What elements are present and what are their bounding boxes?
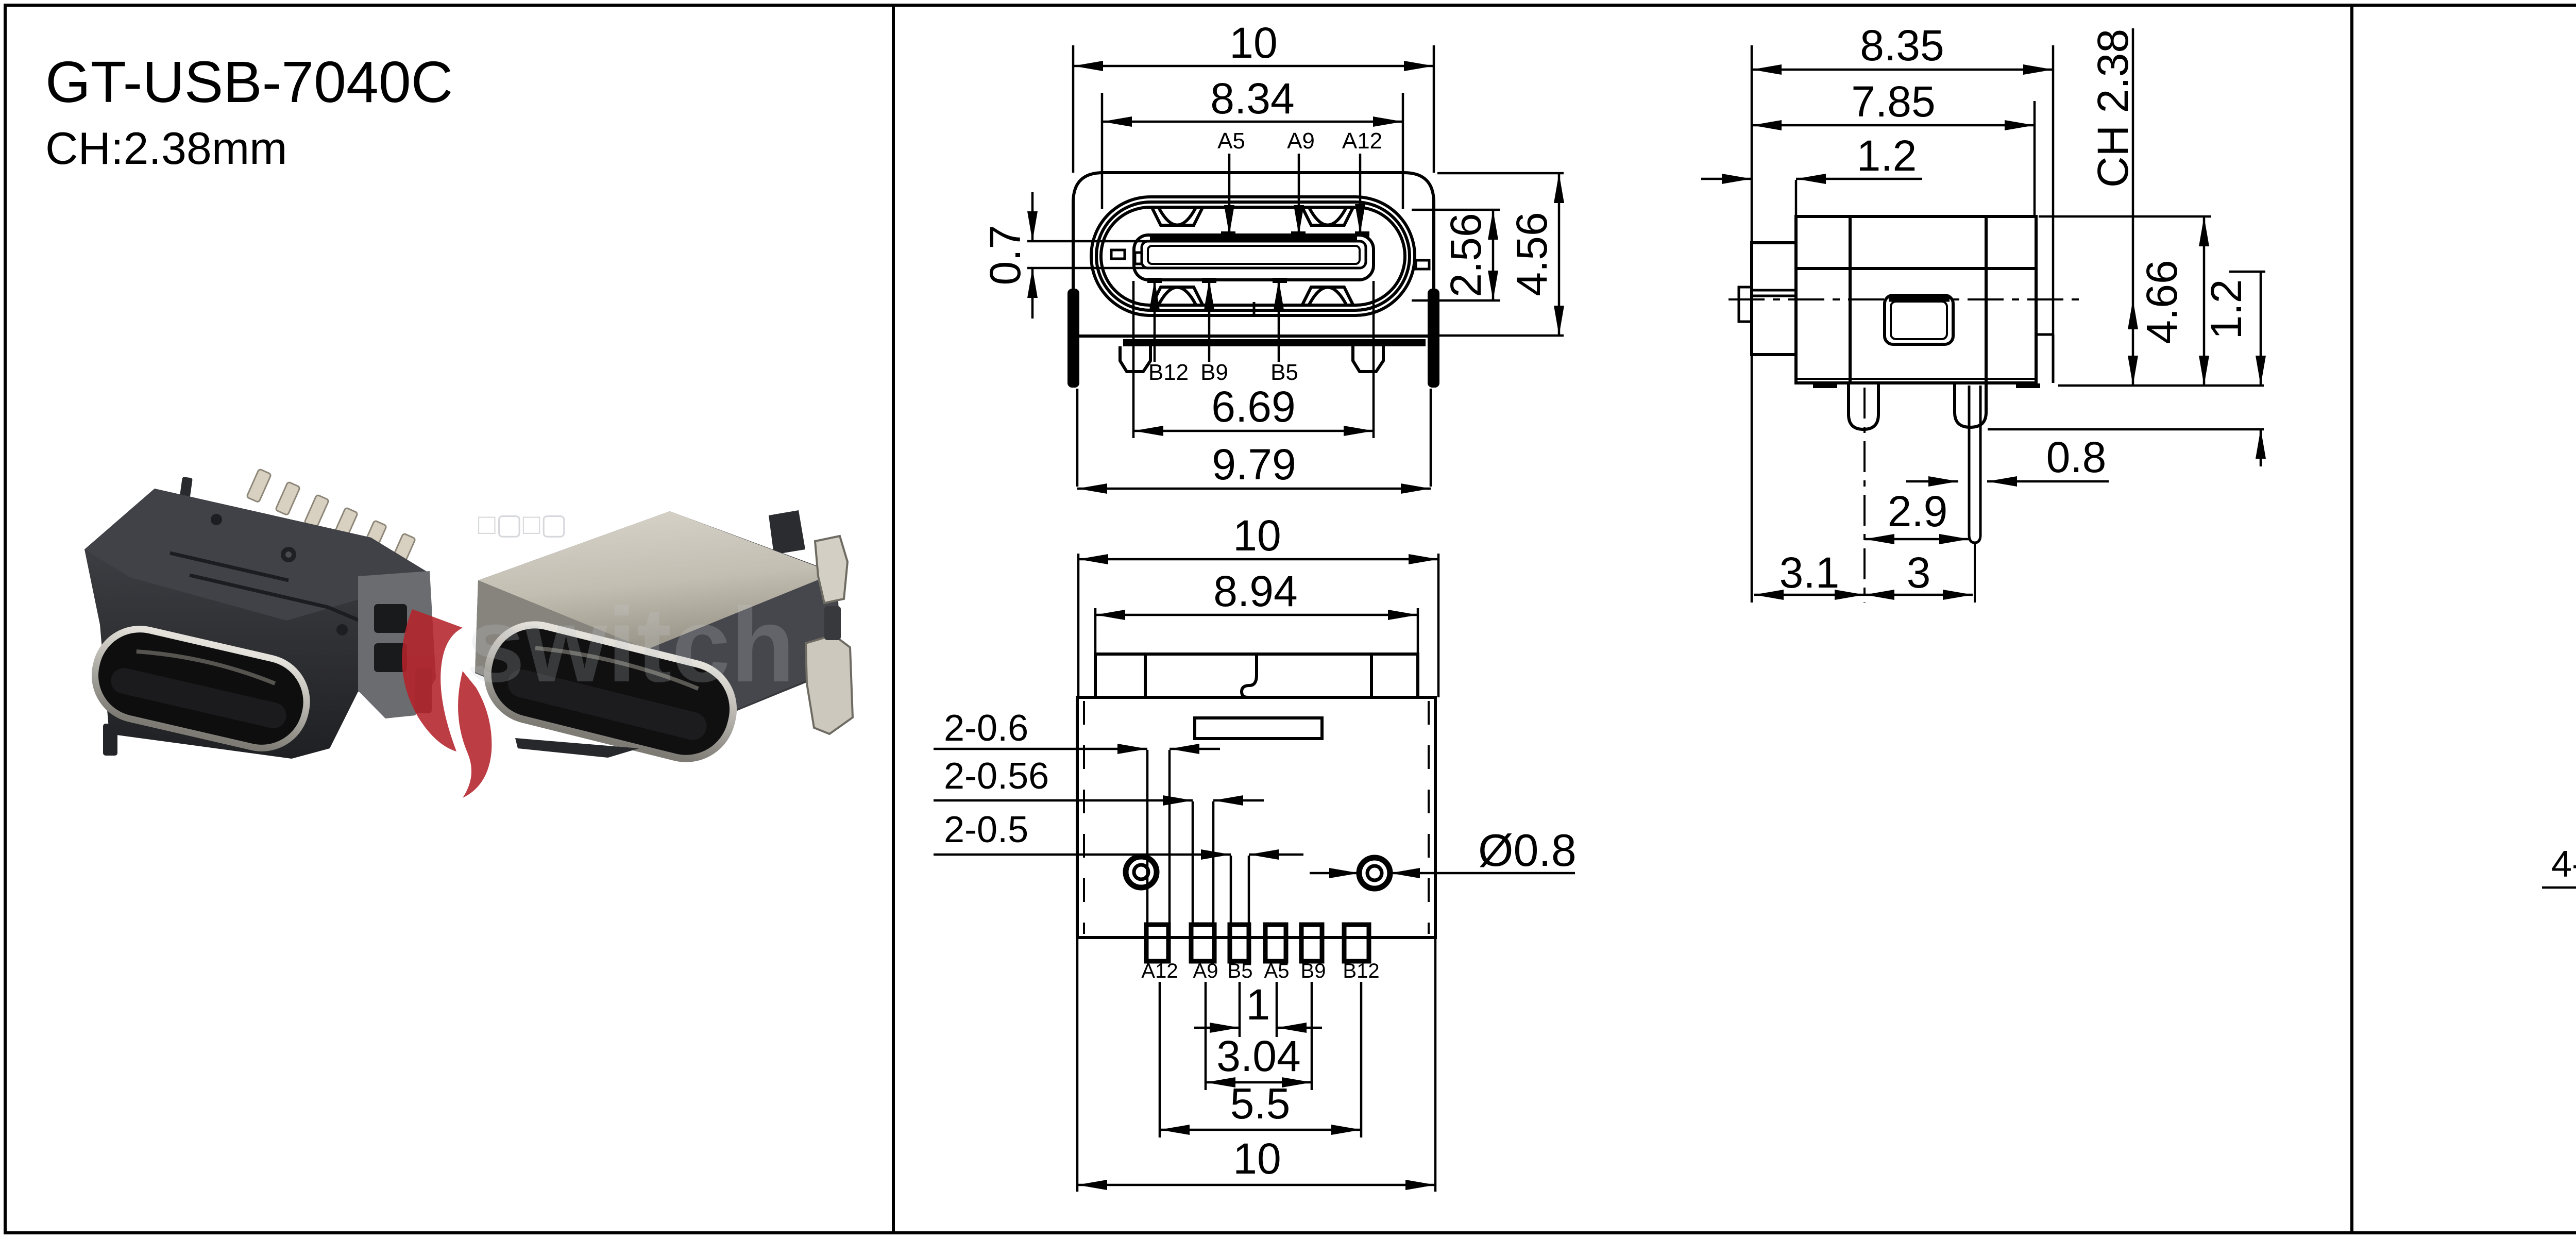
svg-text:3: 3 [1907, 548, 1931, 597]
front view: dim 10 [1073, 65, 1434, 68]
side view: centreline [1728, 298, 2080, 300]
photo: right connector [475, 510, 853, 768]
front view: pin nub A9 [1291, 231, 1306, 237]
side view: dim 7.85 [1752, 124, 2035, 127]
side view: retention clip window [1885, 295, 1953, 344]
front view: tongue [1142, 241, 1366, 268]
svg-text:B5: B5 [1228, 960, 1253, 982]
front view: connector body outline [1073, 173, 1434, 336]
svg-text:2-0.56: 2-0.56 [944, 756, 1049, 797]
svg-text:4.66: 4.66 [2138, 260, 2186, 344]
svg-text:A9: A9 [1287, 128, 1315, 154]
front view: dim 6.69 extension lines [1132, 281, 1135, 438]
bottom view: flange break squiggle [1242, 654, 1257, 697]
panel divider 2 [2350, 5, 2353, 1233]
svg-text:6.69: 6.69 [1211, 382, 1296, 431]
side view: internal vertical front [1849, 216, 1852, 383]
bottom view: pin B5 [1230, 925, 1249, 961]
side view: dim 2.9 [1865, 538, 1969, 541]
photo: watermark red logo [402, 609, 492, 798]
svg-text:B5: B5 [1270, 360, 1298, 385]
bottom view: inner side line right [1428, 701, 1430, 934]
svg-text:B12: B12 [1343, 960, 1379, 982]
svg-text:4-0.5: 4-0.5 [2551, 844, 2576, 885]
side view: dim 8.35 extension lines [1751, 45, 1753, 603]
bottom view: dim 10 bottom [1077, 1184, 1435, 1186]
bottom view: flange divider right [1370, 654, 1373, 697]
side view: dim 4.66 [2203, 216, 2206, 386]
side view: top step line [1796, 267, 2036, 270]
side view: dim CH 2.38 [2132, 28, 2134, 386]
front view: latch bottom-left [1152, 287, 1202, 305]
side view: bottom inner line [1796, 378, 2036, 380]
side view: dim 3.1 [1754, 594, 1865, 596]
svg-text:GT-USB-7040C: GT-USB-7040C [45, 49, 453, 114]
side view: seating plane line [2058, 384, 2264, 387]
svg-text:2.56: 2.56 [1442, 213, 1490, 297]
svg-text:10: 10 [1233, 511, 1281, 560]
front view: shell ring middle [1096, 202, 1410, 310]
side view: dim 4.66 extension line [2039, 215, 2211, 218]
svg-text:8.35: 8.35 [1860, 21, 1944, 70]
side view: dim 8.35 [1752, 69, 2053, 71]
svg-text:0.8: 0.8 [2046, 433, 2107, 481]
bottom view: dim 10 top extension lines [1077, 554, 1080, 697]
front view: latch top-right [1302, 208, 1353, 225]
side view: smt pad rear [2016, 383, 2040, 388]
svg-text:A12: A12 [1342, 128, 1382, 154]
side view: rear tab [2036, 333, 2053, 336]
svg-text:0.7: 0.7 [981, 225, 1029, 286]
side view: smt pad front [1813, 383, 1837, 388]
front view: side through-pin left [1067, 289, 1079, 388]
panel divider 1 [892, 5, 895, 1233]
front view: pin nub B12 [1147, 278, 1162, 283]
front view: tongue housing [1134, 235, 1374, 280]
front view: side spring right [1416, 260, 1429, 269]
svg-text:1.2: 1.2 [1857, 131, 1917, 180]
side view: internal vertical rear [1985, 216, 1988, 383]
bottom view: dim 8.94 extension lines [1094, 608, 1097, 655]
bottom view: hole right [1359, 858, 1390, 889]
photo: left connector [84, 469, 436, 759]
front view: tongue housing top thick edge [1150, 236, 1357, 241]
side view: lip front step [1739, 287, 1752, 322]
svg-text:CH:2.38mm: CH:2.38mm [45, 123, 287, 174]
svg-text:1.2: 1.2 [2202, 279, 2250, 340]
bottom view: slot window [1195, 718, 1322, 739]
front view: mounting leg left [1120, 346, 1150, 372]
side view: lip inner lines [1752, 289, 1796, 292]
svg-text:3.1: 3.1 [1780, 548, 1840, 597]
front view: shell ring inner [1101, 207, 1405, 305]
front view: pin nub B5 [1273, 278, 1287, 283]
svg-text:CH 2.38: CH 2.38 [2089, 29, 2137, 188]
svg-text:1: 1 [1246, 980, 1270, 1029]
bottom view: hole left [1126, 857, 1157, 888]
svg-text:A9: A9 [1193, 960, 1218, 982]
front view: dim 8.34 [1102, 121, 1403, 123]
front view: dim 9.79 extension lines [1076, 389, 1079, 487]
front view: side through-pin right [1428, 289, 1439, 388]
side view: front leg [1849, 383, 1878, 429]
bottom view: dim 5.5 extension lines [1159, 982, 1161, 1137]
side view: mating lip [1752, 243, 1796, 355]
svg-text:10: 10 [1229, 19, 1277, 67]
bottom view: flange divider left [1144, 654, 1147, 697]
bottom view: dim 3.04 [1206, 1081, 1312, 1084]
svg-text:A12: A12 [1141, 960, 1178, 982]
svg-text:switch: switch [466, 586, 795, 704]
svg-text:7.85: 7.85 [1851, 77, 1936, 126]
svg-text:9.79: 9.79 [1212, 440, 1296, 489]
svg-text:2-0.6: 2-0.6 [944, 708, 1028, 749]
svg-text:4.56: 4.56 [1507, 212, 1556, 296]
bottom view: pin A5 [1265, 925, 1286, 961]
svg-text:□▢□▢: □▢□▢ [478, 508, 567, 540]
side view: dim 7.85 extension line [2033, 101, 2036, 216]
svg-text:5.5: 5.5 [1230, 1079, 1291, 1128]
bottom view: pin A12 [1146, 925, 1168, 961]
svg-text:3.04: 3.04 [1216, 1032, 1301, 1080]
front view: latch top-left [1152, 208, 1202, 225]
front view: dim 8.34 extension lines [1101, 93, 1104, 209]
bottom view: rear flange outline [1095, 654, 1418, 697]
bottom view: pin B9 [1301, 925, 1322, 961]
front view: tab at tongue left end [1135, 253, 1142, 264]
svg-text:2.9: 2.9 [1888, 487, 1948, 536]
front view: dim 2.56 [1412, 209, 1500, 211]
front view: dim 10 extension lines [1072, 45, 1075, 173]
svg-text:Ø0.8: Ø0.8 [1478, 825, 1577, 876]
side view: through pin [1969, 386, 1980, 543]
front view: latch bottom-right [1302, 287, 1353, 305]
front view: bottom smt foot bar [1123, 339, 1426, 346]
svg-text:B12: B12 [1148, 360, 1189, 385]
svg-text:A5: A5 [1264, 960, 1290, 982]
svg-text:A5: A5 [1217, 128, 1245, 154]
front view: pin nub A5 [1221, 231, 1235, 237]
front view: pin nub B9 [1202, 278, 1216, 283]
front view: shell ring outer [1091, 197, 1415, 315]
bottom view: dim 10 top [1078, 558, 1438, 561]
svg-text:8.94: 8.94 [1213, 567, 1298, 615]
front view: dim 4.56 [1437, 172, 1564, 175]
bottom view: body outline [1077, 697, 1435, 938]
svg-text:2-0.5: 2-0.5 [944, 809, 1028, 850]
side view: standoff line [1988, 428, 2264, 431]
bottom view: inner side line left [1083, 701, 1085, 934]
front view: dim 9.79 [1077, 488, 1431, 490]
side view: dim 3 [1865, 594, 1973, 596]
svg-text:B9: B9 [1200, 360, 1228, 385]
front view: pin nub A12 [1355, 231, 1369, 237]
side view: dim 1.2 standoff [2229, 271, 2265, 273]
svg-text:8.34: 8.34 [1210, 74, 1295, 123]
front view: side spring left [1111, 250, 1125, 259]
front view: mounting leg right [1353, 346, 1383, 372]
front view: centre mark below tongue [1253, 302, 1256, 317]
side view: through pin extension [1974, 543, 1976, 603]
svg-text:B9: B9 [1301, 960, 1326, 982]
side view: body outline [1796, 216, 2036, 383]
side view: rear leg [1955, 383, 1986, 427]
bottom view: dim 8.94 [1095, 614, 1418, 616]
bottom view: pin B12 [1344, 925, 1369, 961]
bottom view: dim 5.5 [1160, 1129, 1361, 1131]
front view: dim 6.69 [1133, 430, 1374, 432]
front view: tongue inner line [1148, 246, 1360, 264]
bottom view: pin A9 [1191, 925, 1214, 961]
svg-text:10: 10 [1233, 1134, 1281, 1183]
bottom view: dim 3.04 extension lines [1205, 982, 1207, 1090]
bottom view: dim 10 bottom extension lines [1076, 939, 1079, 1192]
bottom view: dim 1 extension lines [1239, 982, 1241, 1037]
side view: front leg centreline [1863, 388, 1866, 603]
